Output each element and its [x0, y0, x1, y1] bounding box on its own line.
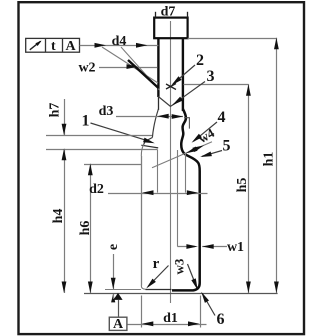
diagonal extension A [102, 47, 158, 83]
svg-text:w3: w3 [172, 258, 187, 274]
svg-text:w2: w2 [78, 61, 95, 76]
bottom left corner radius [141, 286, 145, 290]
dimension d1 extension left [141, 296, 143, 328]
dimension d2 line [108, 193, 208, 195]
datum A stem [118, 300, 120, 317]
diagonal extension B [121, 47, 160, 90]
left body corner radius top [141, 145, 143, 156]
datum A triangle [113, 293, 122, 300]
center punch X mark [166, 84, 176, 90]
datum A box [109, 317, 127, 330]
dimension d3 line [116, 116, 183, 118]
extension line h5 top [184, 84, 249, 86]
left flange step [144, 138, 153, 145]
svg-text:A: A [113, 317, 124, 332]
stem left edge lower thin [158, 97, 160, 110]
dimension w1 [177, 246, 195, 248]
inner extension line a [157, 150, 159, 193]
centerline [170, 21, 172, 303]
svg-text:1: 1 [82, 113, 90, 130]
extension line flange top [46, 135, 152, 137]
original contour tab (thin) [184, 118, 189, 129]
inner extension line c [185, 154, 187, 193]
svg-text:t: t [51, 39, 56, 54]
thick oblique wall mark [128, 60, 159, 88]
svg-text:d3: d3 [99, 104, 114, 119]
neck S-profile thick right contour [172, 109, 200, 290]
svg-text:A: A [65, 39, 76, 54]
svg-text:3: 3 [207, 68, 215, 85]
svg-text:d4: d4 [112, 34, 127, 49]
body left edge [141, 156, 143, 286]
svg-text:2: 2 [196, 52, 204, 69]
svg-text:h1: h1 [262, 152, 277, 167]
svg-text:d2: d2 [89, 182, 104, 197]
flange bottom edge [141, 145, 158, 148]
svg-text:6: 6 [217, 311, 225, 328]
internal cone V [158, 97, 182, 107]
dimension d1 line [128, 324, 207, 326]
svg-text:d1: d1 [163, 311, 178, 326]
feature control frame box [26, 38, 80, 52]
dimension w2 line [99, 67, 158, 69]
dimension w4 oblique line [152, 142, 212, 168]
stem right edge [182, 38, 184, 111]
dimension d4 line [80, 45, 159, 47]
inner extension line b [177, 150, 179, 247]
svg-text:w1: w1 [227, 240, 244, 255]
left flare contour (thin) [152, 109, 158, 138]
dimension d7 ticks [155, 12, 157, 18]
extension line bottom datum [84, 293, 278, 295]
svg-text:h4: h4 [51, 209, 66, 224]
svg-text:h5: h5 [235, 178, 250, 193]
svg-text:h7: h7 [48, 103, 63, 118]
svg-text:4: 4 [218, 109, 226, 126]
bottom face thin (left) [146, 289, 172, 291]
extension line flange bottom [46, 149, 158, 151]
extension line body shoulder [84, 164, 141, 166]
extension line h1 top [188, 38, 277, 40]
dimension d1 extension right [200, 296, 202, 328]
svg-text:d7: d7 [161, 5, 176, 20]
svg-text:e: e [106, 244, 121, 250]
part head (top cap) [154, 18, 187, 39]
svg-text:5: 5 [223, 138, 231, 155]
stem left edge [157, 38, 159, 97]
svg-text:r: r [153, 256, 160, 272]
extension line e upper [105, 289, 141, 291]
FCF slope symbol [30, 41, 41, 50]
